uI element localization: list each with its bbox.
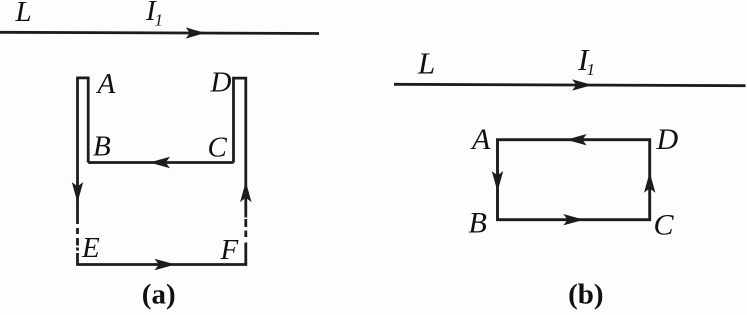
- wire L (figure a): [0, 32, 319, 33]
- current I1 arrow on wire L (a): [186, 27, 206, 38]
- svg-text:A: A: [470, 123, 491, 156]
- svg-text:D: D: [210, 67, 232, 99]
- svg-text:C: C: [654, 208, 675, 241]
- current I1 arrow on wire L (b): [572, 79, 593, 90]
- arrow on BC pointing left: [150, 157, 171, 168]
- svg-text:E: E: [81, 232, 100, 264]
- svg-text:B: B: [93, 130, 111, 162]
- svg-text:A: A: [96, 68, 116, 100]
- arrow on CD pointing up (b): [644, 172, 655, 193]
- svg-text:1: 1: [587, 60, 596, 79]
- arrow up on right wire from F toward C: [240, 182, 251, 203]
- right hairpin D-C (a): inner wire from C up + top fold + outer wire down: [234, 78, 246, 217]
- arrow down on left wire toward E: [72, 182, 83, 203]
- svg-text:L: L: [417, 45, 435, 80]
- wire L (figure b): [394, 84, 746, 85]
- svg-text:L: L: [15, 0, 32, 28]
- dashed wire above F (a): [244, 219, 247, 237]
- arrow on BC pointing right (b): [563, 214, 584, 225]
- loop ABCD (b): [498, 140, 650, 220]
- svg-text:F: F: [220, 234, 239, 266]
- svg-text:1: 1: [155, 11, 164, 30]
- arrow on AB pointing down (b): [492, 171, 503, 192]
- left hairpin A-B (a): outer wire down + top fold + inner wire to B: [78, 78, 89, 224]
- svg-text:(b): (b): [568, 279, 603, 311]
- wire BC (a): [88, 161, 233, 164]
- svg-text:(a): (a): [142, 279, 176, 311]
- arrow on EF pointing right: [155, 259, 176, 270]
- wire EF (a): [76, 263, 247, 266]
- svg-text:D: D: [656, 123, 679, 156]
- dashed wire above E (a): [76, 228, 79, 251]
- arrow on AD pointing left (b): [566, 134, 587, 145]
- solid corner at E (a): [76, 253, 79, 265]
- svg-text:B: B: [469, 206, 487, 239]
- solid corner at F (a): [244, 243, 247, 265]
- svg-text:C: C: [208, 131, 228, 163]
